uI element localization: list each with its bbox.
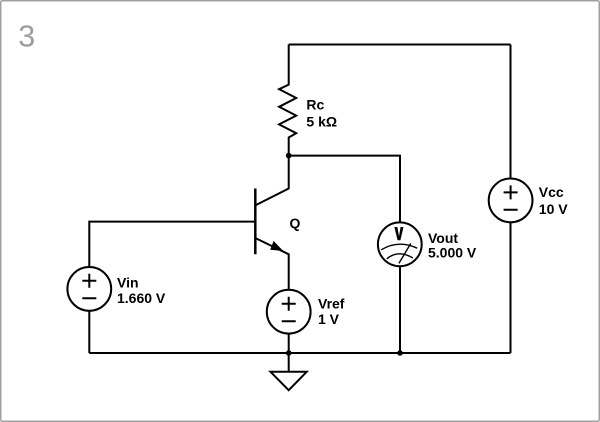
- svg-text:5 kΩ: 5 kΩ: [306, 113, 337, 129]
- transistor Q collector lead: [255, 156, 288, 206]
- svg-text:Rc: Rc: [306, 97, 324, 113]
- label Vin value: [117, 275, 166, 307]
- node: voltmeter/ground rail junction dot: [397, 350, 403, 356]
- transistor Q base bar: [254, 189, 257, 255]
- svg-text:5.000 V: 5.000 V: [428, 245, 477, 261]
- voltage source Vcc: [489, 179, 533, 223]
- svg-text:Vin: Vin: [117, 275, 139, 291]
- wire: right rail upper (to Vcc top): [510, 45, 512, 179]
- svg-text:Vcc: Vcc: [539, 184, 564, 200]
- label Vout value: [428, 230, 477, 261]
- voltmeter Vout: [378, 222, 422, 266]
- node: Vref/ground junction dot: [286, 350, 292, 356]
- wire: Rc bottom node to voltmeter branch: [289, 156, 400, 223]
- wire: bottom rail: [89, 352, 510, 354]
- svg-text:3: 3: [18, 19, 35, 53]
- wire: top rail from Rc to Vcc branch: [289, 44, 511, 46]
- label Rc value: [306, 97, 337, 130]
- wire: voltmeter bottom to ground rail: [399, 266, 401, 353]
- wire: Vref bottom to ground rail: [288, 333, 290, 353]
- voltage source Vref: [267, 290, 311, 334]
- ground: [271, 353, 307, 390]
- wire: Vin bottom to ground rail: [88, 311, 90, 353]
- svg-text:1 V: 1 V: [318, 311, 340, 327]
- transistor Q emitter lead: [255, 238, 288, 290]
- resistor Rc: [279, 45, 296, 156]
- svg-text:1.660 V: 1.660 V: [117, 290, 166, 306]
- label Vcc value: [539, 184, 568, 217]
- voltage source Vin: [67, 267, 111, 311]
- svg-text:Q: Q: [290, 215, 301, 231]
- wire: right rail lower (Vcc bottom to ground rail): [510, 222, 512, 353]
- svg-text:Vref: Vref: [318, 296, 345, 312]
- transistor Q emitter arrow: [270, 241, 283, 251]
- svg-text:10 V: 10 V: [539, 201, 568, 217]
- voltmeter V letter: [394, 227, 403, 240]
- wire: Vin top to base: [89, 222, 255, 268]
- node: collector junction dot: [286, 153, 292, 159]
- label Vref value: [318, 296, 345, 328]
